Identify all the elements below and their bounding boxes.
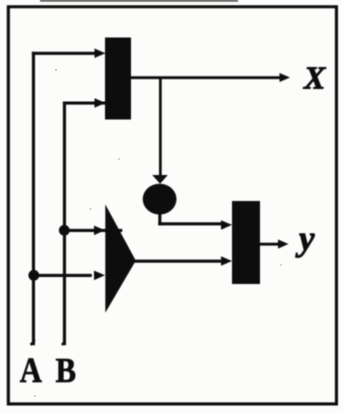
wire B end hook: [61, 340, 66, 346]
wire U1 output to X: [131, 76, 280, 79]
wire A top horizontal: [32, 52, 96, 55]
wire U3 output to y: [260, 243, 279, 246]
svg-text:X: X: [303, 60, 326, 96]
wire B to amplifier: [64, 229, 122, 232]
amplifier U2 (triangle): [105, 204, 136, 312]
page edge artifact: [40, 0, 238, 2]
scan speck 2: [118, 158, 120, 160]
arrowhead to X: [280, 73, 291, 82]
label A: [20, 351, 42, 391]
wire A to amplifier: [34, 274, 92, 277]
junction dot on A: [28, 270, 39, 281]
svg-text:B: B: [55, 352, 76, 390]
scan speck 4: [280, 264, 282, 266]
block U1 (top rectangle): [105, 38, 131, 120]
wire bubble stub down: [158, 212, 161, 225]
arrowhead A into U1: [95, 49, 106, 59]
scan speck 3: [90, 208, 92, 210]
scan speck 1: [55, 69, 57, 71]
svg-text:A: A: [20, 351, 42, 391]
wire B top horizontal: [63, 102, 126, 105]
arrowhead B into U1: [95, 98, 106, 108]
arrowhead B into amplifier: [94, 226, 105, 236]
scan speck 5: [34, 395, 36, 397]
arrowhead bubble into U3: [221, 220, 232, 230]
junction dot on B: [59, 225, 70, 236]
arrowhead to y: [278, 240, 289, 249]
wire branch down to bubble: [159, 78, 162, 176]
wire B vertical: [63, 102, 66, 346]
wire A end hook: [30, 339, 36, 345]
wire bubble to U3 horizontal: [158, 222, 222, 225]
label B: [55, 352, 76, 390]
arrowhead A into amplifier: [94, 271, 105, 281]
arrowhead down into bubble: [152, 175, 168, 184]
inverter bubble: [143, 184, 177, 215]
wire amplifier to U3: [133, 260, 222, 263]
wire A vertical: [32, 52, 35, 345]
block U3 (right rectangle): [232, 201, 260, 284]
arrowhead amplifier into U3: [221, 256, 232, 266]
